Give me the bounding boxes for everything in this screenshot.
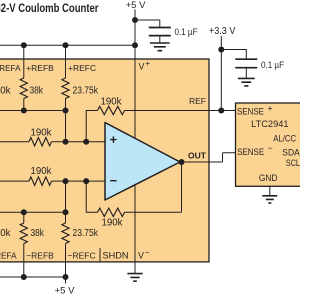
svg-text:190k: 190k <box>102 218 124 229</box>
svg-text:+REFC: +REFC <box>68 63 96 73</box>
wire -REFB column upper <box>23 212 25 223</box>
ground G2 <box>238 78 255 86</box>
wire +REFC pin column <box>65 45 67 78</box>
node rail/REFB <box>21 42 27 48</box>
node +input/divider <box>63 139 69 145</box>
svg-text:−: − <box>268 143 273 153</box>
node rail/REFC <box>63 42 69 48</box>
svg-text:0.1 µF: 0.1 µF <box>261 60 284 71</box>
node +5V cap branch <box>132 17 138 23</box>
wire OUT <box>180 153 236 162</box>
svg-text:−: − <box>145 248 150 257</box>
wire row D (-REFA node row) <box>0 211 66 213</box>
node bottom rail/REFB <box>21 274 27 280</box>
wire row A to +input row <box>65 111 67 142</box>
resistor R_REF 190k <box>98 106 125 114</box>
ground G1 <box>150 43 170 51</box>
svg-text:SENSE: SENSE <box>237 147 264 158</box>
svg-text:190k: 190k <box>31 166 53 177</box>
IC U2 LTC2941 body (orange, cut at right edge) <box>236 103 308 186</box>
svg-text:−REFC: −REFC <box>68 251 96 261</box>
wire row A (+REFA node row) <box>0 110 66 112</box>
capacitor C1 0.1uF <box>149 28 171 36</box>
node row A / 23.75k <box>63 108 69 114</box>
svg-text:32-V Coulomb Counter: 32-V Coulomb Counter <box>0 3 99 15</box>
node +input/REF resistor <box>83 139 89 145</box>
svg-text:+5 V: +5 V <box>55 286 75 297</box>
svg-text:SDA: SDA <box>282 147 300 158</box>
op-amp - input marking <box>110 180 116 182</box>
node bottom rail/REFC <box>63 274 69 280</box>
svg-text:SHDN: SHDN <box>103 251 129 261</box>
wire -REFC pin to bottom rail <box>65 244 67 278</box>
svg-text:−REFA: −REFA <box>0 251 17 261</box>
node row A / 38k <box>21 108 27 114</box>
wire -REFB pin to bottom rail <box>23 244 25 278</box>
wire -input divider drop <box>65 181 67 212</box>
svg-text:23.75k: 23.75k <box>73 228 99 239</box>
wire +IN lead <box>0 141 29 143</box>
resistor R_REFB_top 38k <box>20 78 27 99</box>
resistor R_inB 190k <box>29 138 52 146</box>
svg-text:23.75k: 23.75k <box>73 85 99 96</box>
wire C1 to ground <box>159 36 161 43</box>
svg-text:190k: 190k <box>0 228 11 239</box>
node +5V rail junction <box>132 42 138 48</box>
node OUT/feedback <box>179 159 185 165</box>
node REF/+3.3V/SENSE+ <box>218 108 224 114</box>
resistor R_REFC_bot 23.75k <box>62 223 69 244</box>
wire to capacitor C2 <box>221 50 246 60</box>
svg-text:SCL: SCL <box>286 158 300 169</box>
svg-text:+REFB: +REFB <box>26 63 54 73</box>
wire +3.3V stub (vertical x=221.3) <box>220 36 222 111</box>
wire C2 to ground <box>245 68 247 79</box>
wire to op-amp -input <box>52 180 106 182</box>
wire +5V stub / V+ feed (vertical x=135) <box>134 10 136 139</box>
svg-text:OUT: OUT <box>188 150 207 160</box>
svg-text:AL/CC: AL/CC <box>273 134 296 145</box>
svg-text:190k: 190k <box>0 85 11 96</box>
wire to op-amp +input <box>52 141 106 143</box>
node -input/divider <box>63 178 69 184</box>
wire 23.75k to node row A <box>65 99 67 111</box>
wire bottom +5V stub <box>65 277 67 284</box>
node -input/feedback <box>83 178 89 184</box>
wire V- feed to ground <box>134 185 136 274</box>
svg-text:REF: REF <box>189 96 206 106</box>
IC U1 difference-amplifier body (orange, cut at left edge) <box>0 59 209 262</box>
node +3.3V cap branch <box>218 47 224 53</box>
wire -REFC column upper <box>65 212 67 223</box>
node row D / 38k <box>21 209 27 215</box>
wire top +5V rail <box>0 44 135 46</box>
wire feedback to output <box>125 162 182 212</box>
svg-text:+5 V: +5 V <box>126 0 146 11</box>
op-amp + input marking <box>110 136 116 142</box>
op-amp A1 triangle <box>105 123 180 201</box>
wire to capacitor C1 <box>135 20 160 28</box>
svg-text:38k: 38k <box>30 85 44 96</box>
wire bottom +5V rail <box>0 276 66 278</box>
wire GND pin stem <box>269 186 271 196</box>
svg-text:0.1 µF: 0.1 µF <box>175 27 198 38</box>
svg-text:−REFB: −REFB <box>26 251 54 261</box>
wire +REFB pin column <box>23 45 25 78</box>
wire 38k to node row A <box>23 99 25 111</box>
svg-text:38k: 38k <box>31 228 45 239</box>
svg-text:+: + <box>145 59 150 68</box>
svg-text:190k: 190k <box>31 127 53 138</box>
svg-text:V: V <box>138 251 144 261</box>
pin separator tick SHDN <box>99 248 101 262</box>
wire REF to LTC2941 SENSE+ <box>125 110 236 112</box>
resistor R_REFB_bot 38k <box>20 223 27 244</box>
svg-text:190k: 190k <box>101 97 123 108</box>
svg-text:V: V <box>139 62 145 72</box>
resistor R_inC 190k <box>29 177 52 185</box>
ground G3 (V- pin) <box>127 274 142 282</box>
resistor R_REFC_top 23.75k <box>62 78 69 99</box>
svg-text:+REFA: +REFA <box>0 63 21 73</box>
capacitor C2 0.1uF <box>235 59 257 67</box>
wire feedback link <box>86 181 97 212</box>
svg-text:+: + <box>268 103 273 113</box>
wire +input node up to REF resistor <box>86 111 97 142</box>
node row D / 23.75k <box>63 209 69 215</box>
ground G4 (LTC2941 GND) <box>262 196 277 203</box>
wire -IN lead <box>0 180 29 182</box>
svg-text:+3.3 V: +3.3 V <box>209 26 236 37</box>
svg-text:GND: GND <box>259 173 278 184</box>
svg-text:LTC2941: LTC2941 <box>251 119 289 130</box>
svg-text:SENSE: SENSE <box>237 107 264 118</box>
resistor R_FB 190k <box>98 208 125 216</box>
